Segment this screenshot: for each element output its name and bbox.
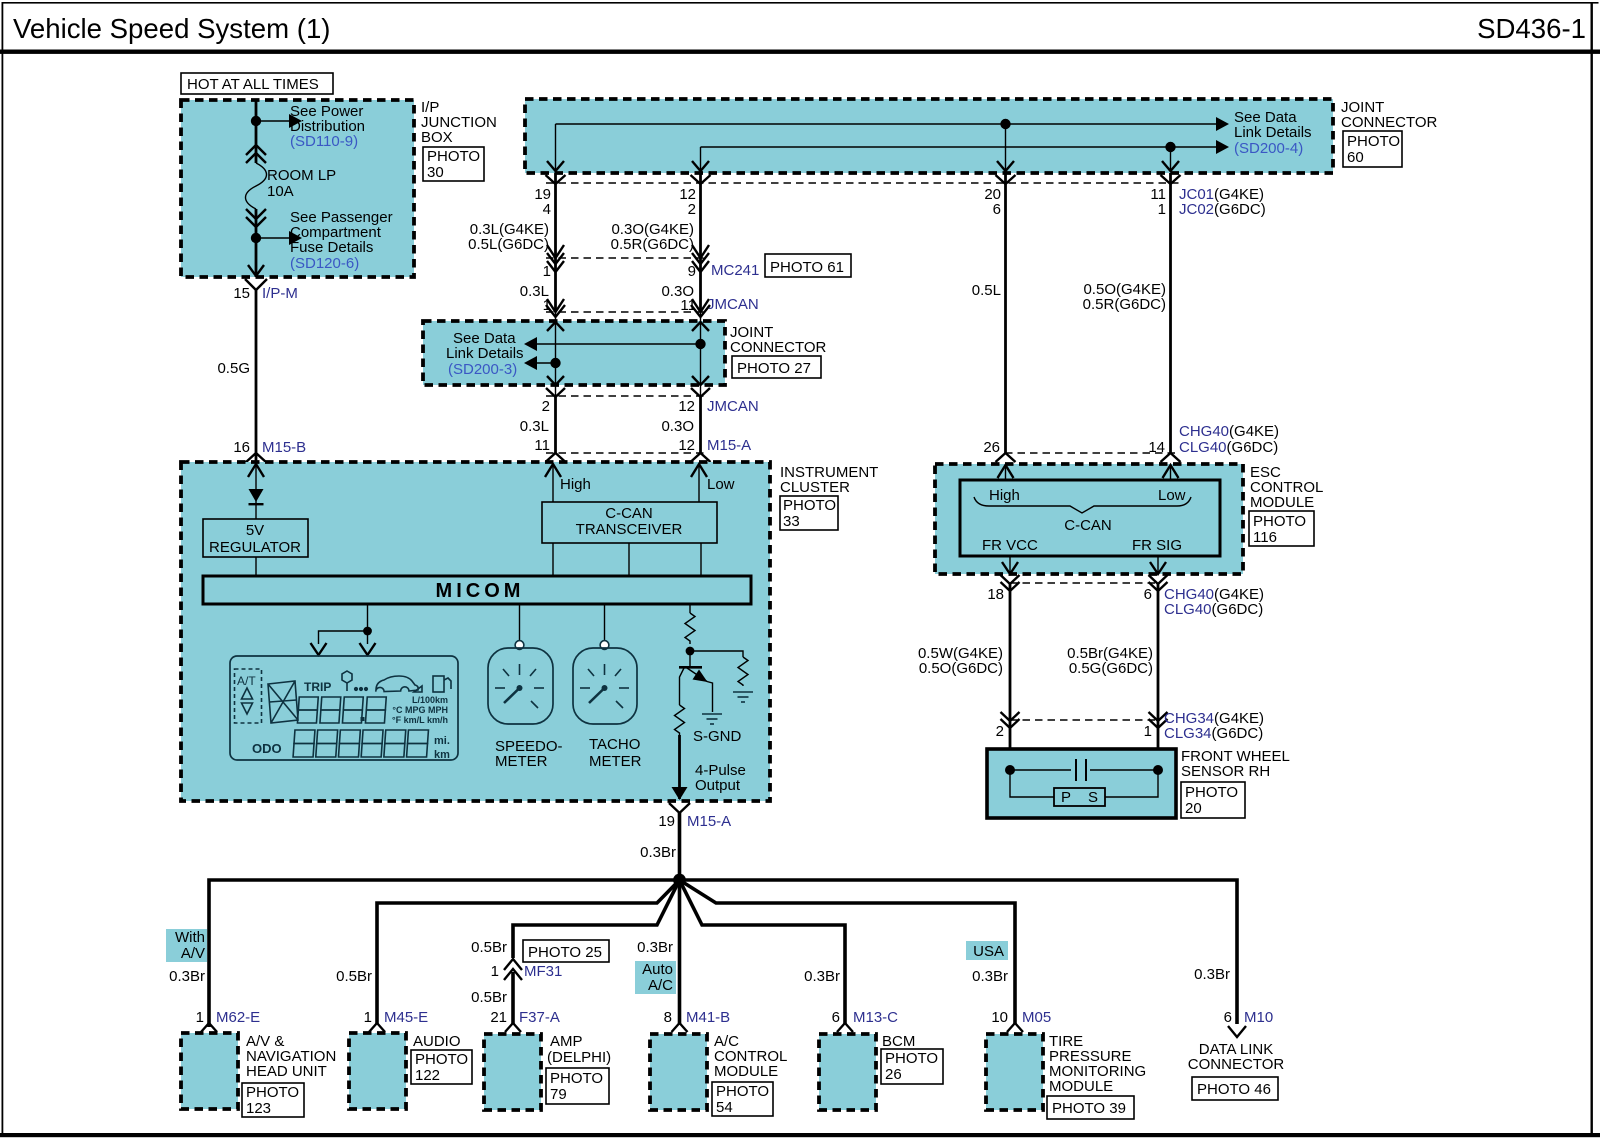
ESC inner C-CAN box [960,480,1220,556]
svg-text:MICOM: MICOM [436,580,525,602]
svg-text:BOX: BOX [421,129,453,146]
svg-text:M62-E: M62-E [216,1009,260,1026]
label Auto A/C [635,961,676,994]
wire main bus y880 [209,880,1237,1027]
node LCD drive [363,627,372,636]
ESC control module box [935,464,1243,574]
svg-text:JMCAN: JMCAN [707,398,759,415]
svg-text:HOT AT ALL TIMES: HOT AT ALL TIMES [187,76,319,93]
svg-text:C-CAN: C-CAN [605,505,653,522]
svg-text:6: 6 [832,1009,840,1026]
svg-text:19: 19 [658,813,675,830]
wire regulator to MICOM [255,557,257,576]
wire FR VCC 0.5W [1009,583,1012,720]
svg-text:10: 10 [991,1009,1008,1026]
photo box PHOTO 54 [712,1082,773,1116]
svg-text:PHOTO 27: PHOTO 27 [737,360,811,377]
wire branch y903 left [377,880,680,1024]
arrow down into LCD (left) [311,643,327,655]
svg-text:0.3Br: 0.3Br [1194,966,1230,983]
svg-text:PHOTO: PHOTO [246,1084,299,1101]
svg-text:C-CAN: C-CAN [1064,517,1112,534]
svg-text:S: S [1088,789,1098,806]
svg-text:0.3Br: 0.3Br [640,844,676,861]
harness dashed line row4 (JMCAN below box) [546,395,706,397]
tire pressure monitoring module connector box [986,1034,1043,1110]
connector chevron C row5 [691,453,711,462]
svg-text:2: 2 [688,201,696,218]
wire: joint link line B [537,362,556,364]
svg-text:Link Details: Link Details [1234,124,1312,141]
svg-text:FR VCC: FR VCC [982,537,1038,554]
LCD gear position segment [268,681,298,723]
wire C through joint connector [700,312,702,396]
tachometer gauge [600,641,609,650]
wire branch y925 left [513,880,680,958]
wire branch y925 right [680,880,846,1024]
svg-text:CLUSTER: CLUSTER [780,479,850,496]
connector JMCAN crossing B [547,299,564,312]
svg-text:PHOTO: PHOTO [1185,784,1238,801]
audio connector box [349,1033,406,1109]
wire node to base resistor R2 [690,651,743,657]
amp (DELPHI) connector box [484,1034,541,1110]
photo box PHOTO 25 [523,940,609,962]
svg-text:CONNECTOR: CONNECTOR [1341,114,1438,131]
svg-text:0.3Br: 0.3Br [169,968,205,985]
connector chevron FR VCC [1001,575,1020,584]
svg-text:High: High [989,487,1020,504]
connector fork M05 [1007,1023,1023,1032]
connector chevron E at ESC [1161,453,1181,462]
harness dashed line at ESC top [1005,452,1178,454]
svg-text:PHOTO 39: PHOTO 39 [1052,1100,1126,1117]
svg-text:0.5O(G6DC): 0.5O(G6DC) [919,660,1003,677]
joint connector box SD200-3 [423,321,725,385]
svg-text:P: P [1061,789,1071,806]
photo box PHOTO 46 [1192,1077,1278,1100]
node on low line [1165,142,1175,152]
svg-text:26: 26 [885,1066,902,1083]
connector chevron FR SIG [1149,575,1168,584]
5V regulator box [203,519,308,557]
svg-text:km: km [434,749,450,761]
svg-text:(SD200-3): (SD200-3) [448,361,517,378]
svg-text:M10: M10 [1244,1009,1273,1026]
svg-text:M45-E: M45-E [384,1009,428,1026]
svg-text:ROOM LP: ROOM LP [267,167,336,184]
connector chevron E row1 [1161,175,1181,184]
connector chevron sensor SIG [1149,712,1168,721]
svg-text:1: 1 [1158,201,1166,218]
svg-text:L/100km: L/100km [412,695,448,705]
svg-text:12: 12 [678,437,695,454]
photo box PHOTO 30 [423,147,484,181]
svg-text:(SD110-9): (SD110-9) [290,133,358,150]
svg-text:54: 54 [716,1099,733,1116]
node on link line B [550,358,560,368]
joint connector bus box (top) [525,99,1333,173]
wire MICOM to output resistor [689,604,691,613]
splice node [673,874,686,887]
wire M15-B to diode [255,464,257,519]
connector chevron B row1 [546,175,566,184]
svg-text:MODULE: MODULE [714,1063,778,1080]
photo box PHOTO 61 [765,254,851,277]
svg-text:123: 123 [246,1100,271,1117]
svg-text:30: 30 [427,164,444,181]
svg-text:HEAD UNIT: HEAD UNIT [246,1063,327,1080]
wire C: bus to MC241 [699,173,702,258]
wire branch y903 right [680,880,1016,1024]
connector fork M15-A pin 19 [669,803,690,813]
svg-text:Fuse Details: Fuse Details [290,239,373,256]
wire: tap to See Passenger Compartment Fuse Details [256,237,289,239]
svg-text:33: 33 [783,513,800,530]
svg-text:MODULE: MODULE [1049,1078,1113,1095]
harness dashed line row3 (JMCAN) [546,311,706,313]
photo box PHOTO 79 [546,1068,609,1104]
wire: CAN low bus line [701,146,1217,148]
connector fork I/P-M [245,279,267,290]
svg-text:°C MPG MPH: °C MPG MPH [392,705,448,715]
svg-text:PHOTO: PHOTO [885,1050,938,1067]
arrow up inside ESC (High) [998,465,1014,478]
wire Low: cluster top to C-CAN transceiver [698,464,700,502]
wire FR VCC out of ESC [1009,556,1011,574]
harness dashed line at wheel sensor [1010,719,1158,721]
svg-text:0.3O: 0.3O [661,418,694,435]
svg-text:AMP: AMP [550,1033,583,1050]
arrow down FR VCC [1002,562,1018,574]
arrow exiting I/P junction box [248,265,264,276]
svg-text:26: 26 [983,439,1000,456]
wire MICOM to speedometer [519,604,521,641]
wire: battery feed inside I/P junction box [255,100,258,163]
svg-text:FR SIG: FR SIG [1132,537,1182,554]
svg-text:AUDIO: AUDIO [413,1033,461,1050]
svg-text:14: 14 [1148,439,1165,456]
svg-text:5V: 5V [246,522,264,539]
wire into sensor right [1157,720,1160,770]
resistor R2 [738,657,748,686]
svg-text:PHOTO: PHOTO [427,148,480,165]
instrument cluster module box [181,462,770,801]
svg-text:PHOTO 61: PHOTO 61 [770,259,844,276]
svg-text:20: 20 [1185,800,1202,817]
node: power distribution tap [251,116,261,126]
wire drop E inside bus box [1170,147,1172,172]
wire D into ESC [1005,464,1007,480]
inline connector MF31 [504,959,522,970]
svg-text:°F km/L km/h: °F km/L km/h [392,715,448,725]
svg-text:CLG34(G6DC): CLG34(G6DC) [1164,725,1263,742]
connector chevron B row5 [546,453,566,462]
wire D: bus to ESC [1004,173,1007,453]
arrow up inside joint connector (B) [547,322,564,331]
LCD car icon [376,676,419,692]
svg-text:0.5Br: 0.5Br [336,968,372,985]
A/C control module connector box [650,1034,707,1110]
wire drop D inside bus box [1005,124,1007,172]
fuse ROOM LP 10A [246,163,267,209]
svg-text:116: 116 [1253,529,1277,546]
svg-text:1: 1 [196,1009,204,1026]
svg-text:M41-B: M41-B [686,1009,730,1026]
svg-text:With: With [175,929,205,946]
svg-text:6: 6 [1224,1009,1232,1026]
svg-text:0.5G(G6DC): 0.5G(G6DC) [1069,660,1153,677]
wire: tap to See Power Distribution [256,120,289,122]
svg-text:MODULE: MODULE [1250,494,1314,511]
photo box PHOTO 20 [1181,782,1245,818]
svg-text:0.5L: 0.5L [972,282,1001,299]
svg-text:M13-C: M13-C [853,1009,898,1026]
svg-text:16: 16 [233,439,250,456]
svg-text:Auto: Auto [642,961,673,978]
svg-text:CHG40(G4KE): CHG40(G4KE) [1179,423,1279,440]
svg-text:1: 1 [364,1009,372,1026]
svg-text:PHOTO 46: PHOTO 46 [1197,1081,1271,1098]
wire E into ESC [1170,464,1172,480]
svg-text:METER: METER [495,753,548,770]
svg-text:PHOTO: PHOTO [415,1051,468,1068]
ground S-GND [702,714,722,724]
wire F37-A lower [511,972,515,1024]
node output [686,647,695,656]
speedometer gauge [515,641,524,650]
svg-text:ODO: ODO [252,741,282,756]
svg-text:(SD120-6): (SD120-6) [290,255,359,272]
svg-text:PHOTO: PHOTO [550,1070,603,1087]
node on link line A [695,339,705,349]
MICOM block [203,576,751,604]
svg-text:0.5Br: 0.5Br [471,939,507,956]
node: passenger fuse tap [251,233,261,243]
svg-text:F37-A: F37-A [519,1009,560,1026]
svg-text:TRIP: TRIP [304,680,331,694]
wire branch to LCD left [319,631,368,644]
svg-text:6: 6 [993,201,1001,218]
connector fork M13-C [837,1023,853,1032]
svg-text:12: 12 [678,398,695,415]
photo box PHOTO 26 [881,1049,943,1084]
label USA [966,941,1008,960]
connector chevron M15-B at cluster edge [245,453,267,463]
LCD A/T indicator [235,669,262,723]
LCD display panel [230,656,458,760]
svg-text:PHOTO: PHOTO [783,497,836,514]
connector chevron C row4 [691,388,710,397]
svg-text:0.5R(G6DC): 0.5R(G6DC) [611,236,694,253]
svg-text:21: 21 [490,1009,507,1026]
svg-text:60: 60 [1347,149,1364,166]
arrow exiting cluster (4-pulse) [672,787,688,800]
svg-text:10A: 10A [267,183,294,200]
svg-text:TACHO: TACHO [589,736,640,753]
connector chevron D row1 [996,175,1016,184]
svg-text:0.5G: 0.5G [217,360,250,377]
svg-text:PHOTO 25: PHOTO 25 [528,944,602,961]
arrow up inside cluster (M15-B input) [248,464,264,477]
svg-text:(DELPHI): (DELPHI) [547,1049,611,1066]
connector chevron C row1 [691,175,711,184]
connector MC241 crossing B [547,245,564,258]
svg-text:REGULATOR: REGULATOR [209,539,301,556]
svg-text:CONNECTOR: CONNECTOR [730,339,827,356]
svg-text:M05: M05 [1022,1009,1051,1026]
connector chevrons below fuse [246,209,266,219]
svg-text:PHOTO: PHOTO [1253,513,1306,530]
connector fork M45-E [369,1023,385,1032]
svg-text:79: 79 [550,1086,567,1103]
LCD arrow wedge [414,686,422,692]
svg-text:0.3Br: 0.3Br [972,968,1008,985]
arrow down into LCD (right) [360,643,376,655]
svg-text:S-GND: S-GND [693,728,742,745]
LCD 7seg row2 [293,730,428,757]
svg-text:SD436-1: SD436-1 [1477,13,1586,44]
svg-text:PHOTO: PHOTO [716,1083,769,1100]
LCD antenna icon [342,671,367,691]
wire B: MC241 to JMCAN 0.3L [554,258,557,312]
svg-text:A/T: A/T [237,674,256,688]
arrow up inside joint connector (C) [692,322,709,331]
wire I/P-M 0.5G down to instrument cluster [255,290,258,462]
svg-text:mi.: mi. [434,735,450,747]
arrow up inside cluster (High) [545,464,561,477]
svg-text:15: 15 [233,285,250,302]
svg-text:Link Details: Link Details [446,345,524,362]
wire into sensor left [1009,720,1012,770]
label HOT AT ALL TIMES [181,73,333,94]
svg-text:METER: METER [589,753,642,770]
arrow down inside joint connector (B) [547,376,564,385]
front wheel sensor RH box [987,749,1176,818]
svg-text:11: 11 [534,437,550,454]
wires transceiver to MICOM [552,543,554,576]
wire B: bus to MC241 [554,173,557,258]
svg-text:TRANSCEIVER: TRANSCEIVER [576,521,683,538]
svg-text:0.3Br: 0.3Br [637,939,673,956]
arrow up inside cluster (Low) [691,464,707,477]
svg-text:1: 1 [1144,723,1152,740]
connector MC241 crossing C [692,245,709,258]
ground (right of transistor) [733,692,753,702]
diode D1 [249,489,264,502]
svg-text:0.3Br: 0.3Br [804,968,840,985]
wire M15-A 0.3Br from cluster to splice [678,813,682,880]
svg-text:(SD200-4): (SD200-4) [1234,140,1303,157]
node sensor left [1005,765,1015,775]
svg-text:Vehicle Speed System (1): Vehicle Speed System (1) [13,13,331,44]
harness dashed line row1 [546,182,1180,184]
LCD 7seg row1 [297,697,386,723]
svg-text:High: High [560,476,591,493]
connector chevron D at ESC [996,453,1016,462]
svg-text:A/C: A/C [648,977,673,994]
svg-text:JC02(G6DC): JC02(G6DC) [1179,201,1266,218]
brace under High/Low [974,497,1191,513]
svg-text:Low: Low [707,476,735,493]
svg-text:9: 9 [688,263,696,280]
connector fork F37-A [505,1023,521,1032]
wire High: cluster top to C-CAN transceiver [552,464,554,502]
harness dashed line row5 (M15-A at cluster) [546,452,706,454]
svg-text:0.5L(G6DC): 0.5L(G6DC) [468,236,549,253]
svg-text:BCM: BCM [882,1033,915,1050]
wire FR SIG 0.5Br [1157,583,1160,720]
svg-text:USA: USA [973,943,1004,960]
photo box PHOTO 33 [780,496,838,530]
photo box PHOTO 122 [411,1050,472,1084]
svg-text:CLG40(G6DC): CLG40(G6DC) [1179,439,1278,456]
svg-text:0.3L: 0.3L [520,418,549,435]
wire MICOM to LCD driver node [367,604,369,631]
wire B: joint to cluster 0.3L [554,396,557,453]
svg-text:18: 18 [987,586,1004,603]
wire: CAN high bus line [556,123,1217,125]
photo box PHOTO 123 [242,1083,304,1117]
wire drop B inside bus box [555,124,557,172]
svg-text:M15-A: M15-A [687,813,731,830]
connector socket M10 [1228,1026,1246,1037]
svg-text:1: 1 [491,963,499,980]
resistor R1 (pull-up) [685,613,695,644]
resistor R3 (output) [675,705,685,735]
svg-text:2: 2 [996,723,1004,740]
wire FR SIG out of ESC [1157,556,1159,574]
svg-text:MF31: MF31 [524,963,562,980]
arrow down inside joint connector (C) [692,376,709,385]
harness dashed line below ESC [1010,582,1158,584]
BCM connector box [819,1034,876,1110]
svg-text:CLG40(G6DC): CLG40(G6DC) [1164,601,1263,618]
svg-text:2: 2 [542,398,550,415]
svg-text:Output: Output [695,777,741,794]
svg-text:Low: Low [1158,487,1186,504]
wire E: bus to ESC [1169,173,1172,453]
connector chevron sensor VCC [1001,712,1020,721]
wire MICOM to tachometer [604,604,606,641]
svg-text:JMCAN: JMCAN [707,296,759,313]
svg-text:4: 4 [543,201,551,218]
svg-text:A/V: A/V [181,945,205,962]
A/V & navigation head unit connector box [181,1033,238,1109]
svg-text:122: 122 [415,1067,440,1084]
svg-text:PHOTO: PHOTO [1347,133,1400,150]
svg-text:CONNECTOR: CONNECTOR [1188,1056,1285,1073]
svg-text:SENSOR RH: SENSOR RH [1181,763,1270,780]
photo box PHOTO 27 [732,356,821,378]
photo box PHOTO 60 [1343,131,1402,167]
svg-text:MC241: MC241 [711,262,759,279]
harness dashed line row2 (MC241) [546,257,706,259]
wire B through joint connector [555,312,557,396]
svg-text:0.5R(G6DC): 0.5R(G6DC) [1083,296,1166,313]
wire: joint link line A [537,343,701,345]
arrow up inside ESC (Low) [1163,465,1179,478]
svg-text:6: 6 [1144,586,1152,603]
wire 4-pulse output [678,735,681,799]
svg-text:0.5Br: 0.5Br [471,989,507,1006]
I/P junction box (fuse box) [181,100,414,277]
wire drop C inside bus box [700,147,702,172]
node on high line [1000,119,1010,129]
transistor Q1 [689,651,691,666]
svg-text:I/P-M: I/P-M [262,285,298,302]
svg-text:M15-B: M15-B [262,439,306,456]
